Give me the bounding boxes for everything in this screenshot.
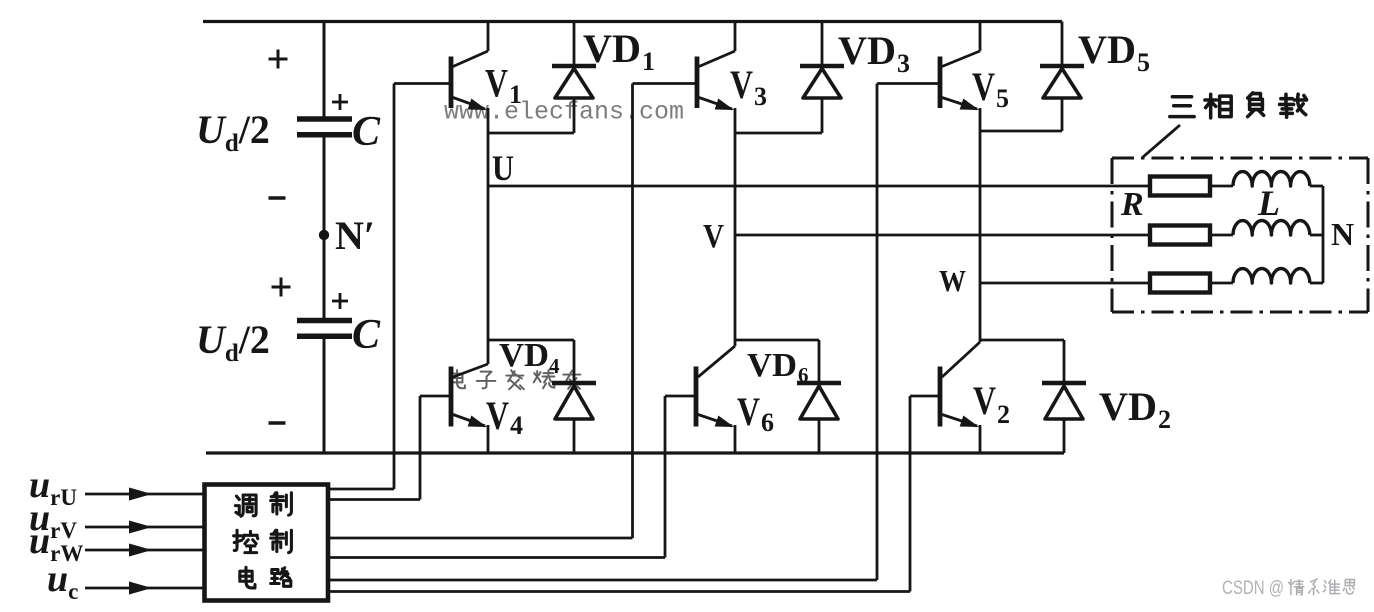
svg-text:W: W [939,263,966,298]
svg-text:N′: N′ [335,213,375,258]
svg-text:C: C [352,312,381,358]
svg-text:VD: VD [1099,384,1157,429]
svg-text:V: V [737,389,760,434]
svg-text:V: V [486,393,509,438]
svg-text:6: 6 [798,363,809,387]
svg-text:V: V [730,62,753,107]
svg-text:5: 5 [996,84,1009,113]
svg-text:2: 2 [1158,405,1171,434]
svg-text:L: L [1257,183,1280,223]
svg-text:3: 3 [897,49,910,78]
svg-text:VD: VD [499,337,549,374]
svg-text:www.elecfans.com: www.elecfans.com [444,98,684,127]
svg-text:V: V [485,61,508,106]
svg-text:N: N [1331,216,1354,252]
svg-text:4: 4 [510,411,523,440]
svg-text:1: 1 [509,80,522,109]
svg-text:VD: VD [747,347,797,384]
svg-text:VD: VD [583,26,641,71]
svg-text:VD: VD [1078,27,1136,72]
svg-text:5: 5 [1137,48,1150,77]
svg-text:CSDN @: CSDN @ [1222,578,1284,599]
svg-text:V: V [973,378,996,423]
svg-text:6: 6 [761,408,774,437]
svg-text:3: 3 [754,82,767,111]
svg-text:U: U [492,148,514,188]
svg-text:1: 1 [642,47,655,76]
svg-text:2: 2 [997,400,1010,429]
svg-text:R: R [1120,186,1144,223]
svg-text:C: C [352,109,381,155]
svg-text:V: V [972,64,995,109]
svg-text:VD: VD [838,28,896,73]
svg-text:V: V [703,218,724,255]
svg-text:4: 4 [549,354,560,378]
